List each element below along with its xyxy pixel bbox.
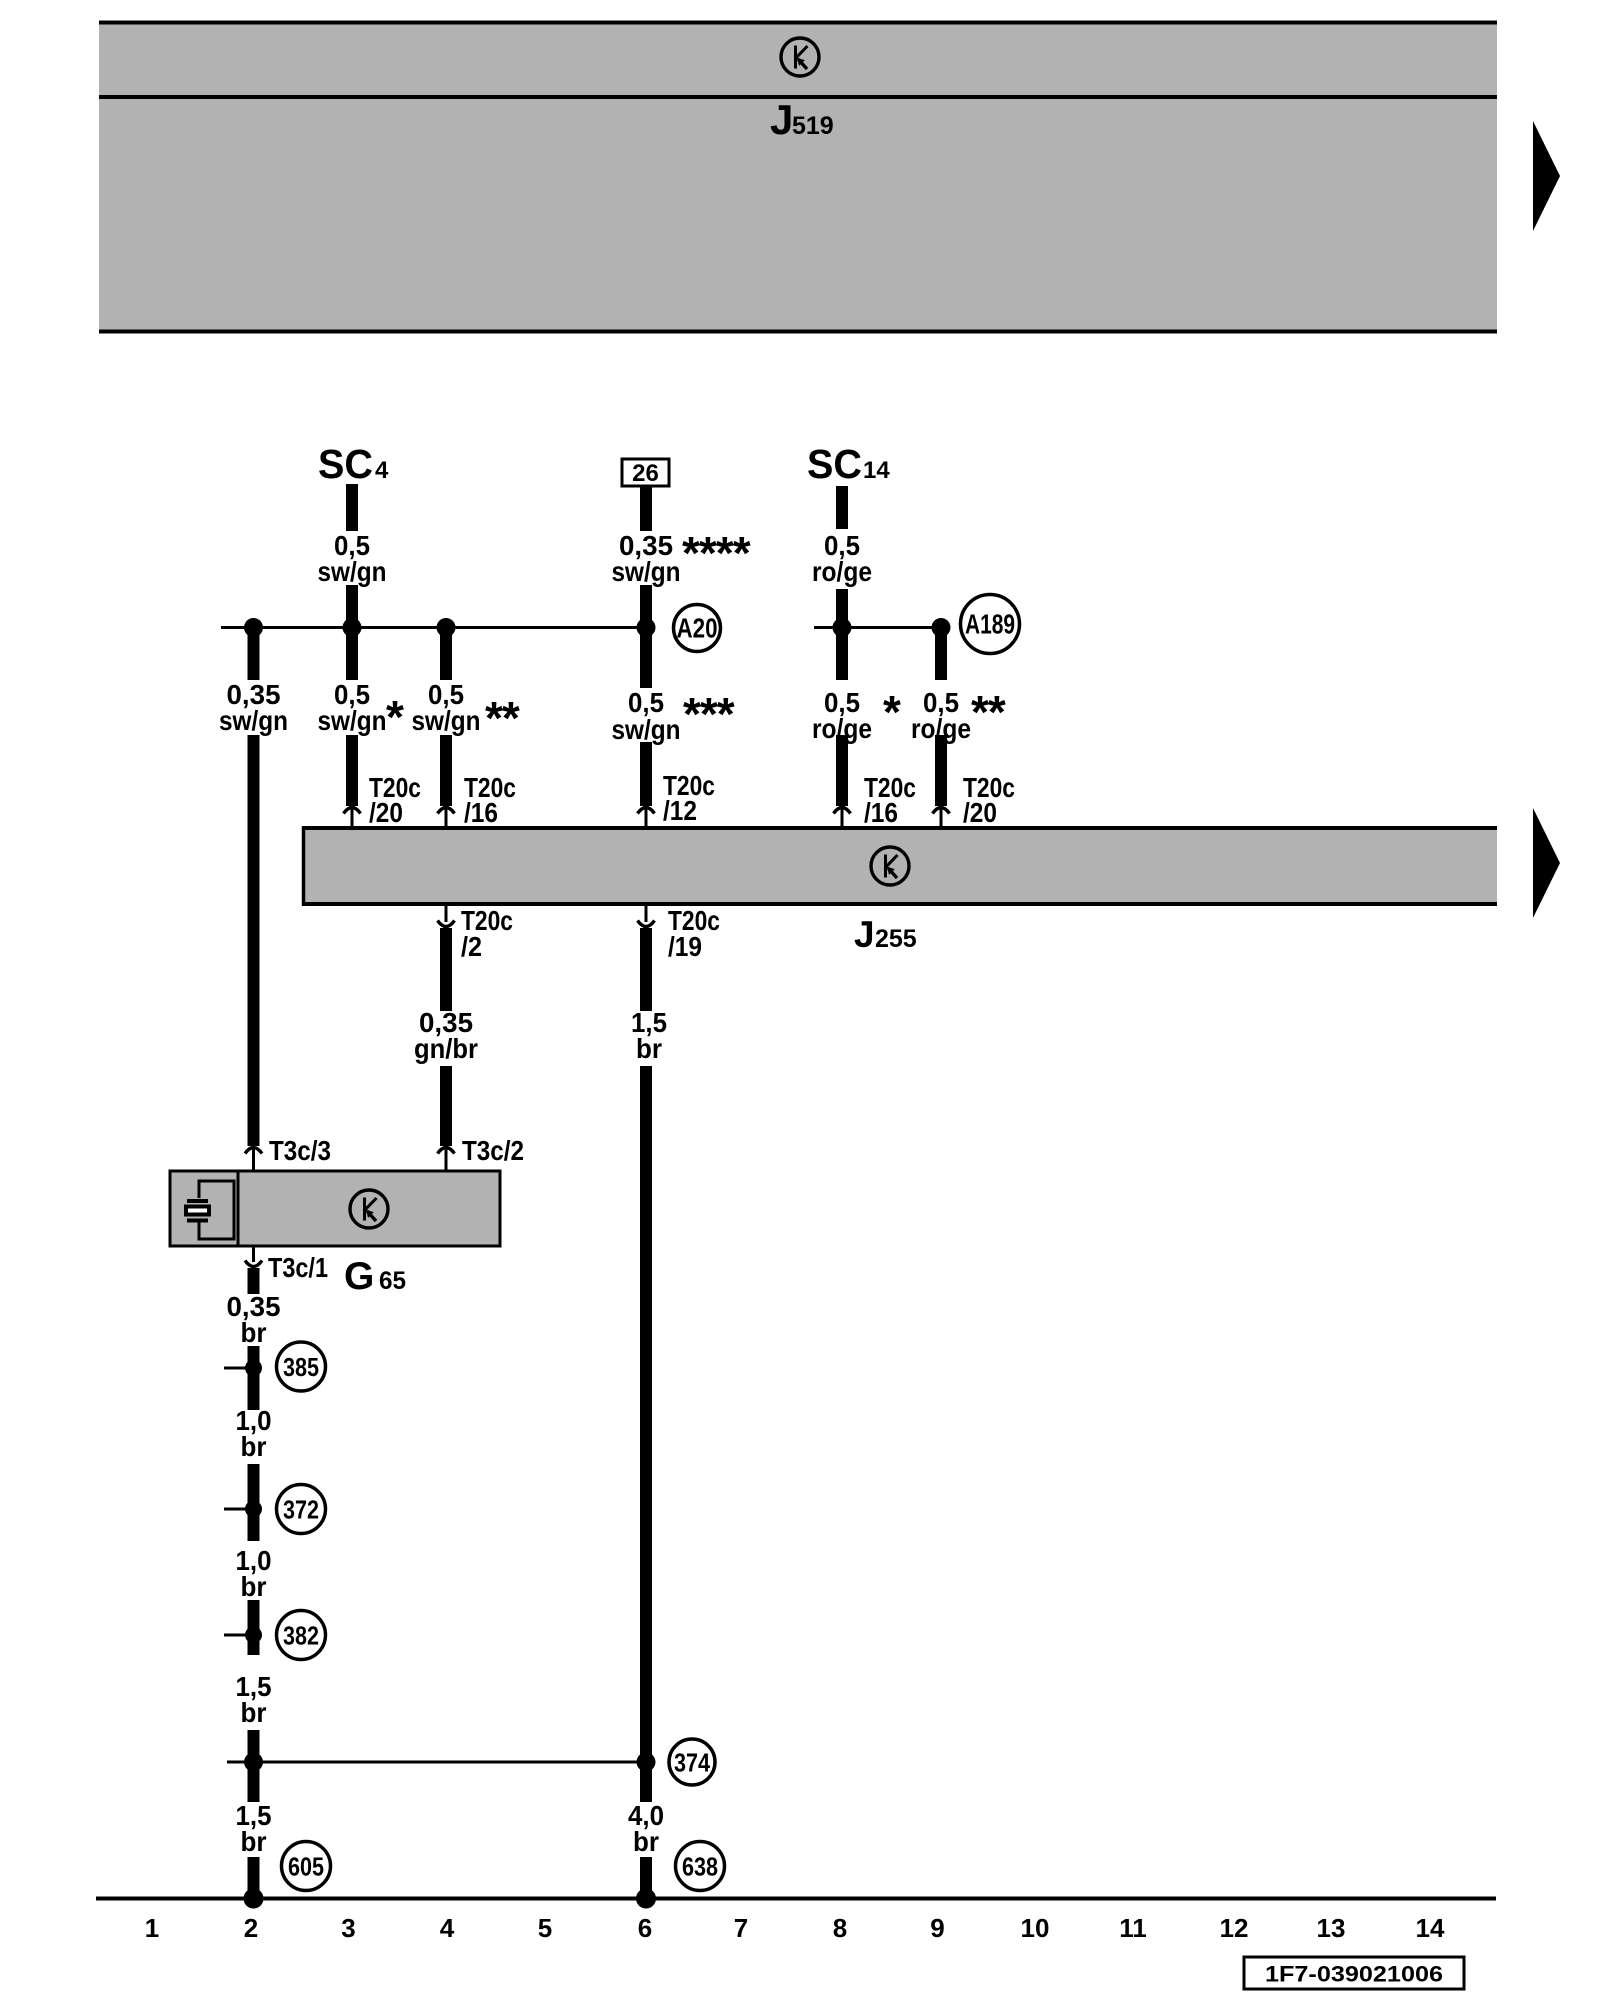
svg-text:11: 11 (1119, 1913, 1147, 1943)
svg-text:SC: SC (807, 441, 862, 487)
pin T20c/12 connector (638, 808, 655, 814)
svg-text:****: **** (682, 527, 751, 579)
wire segment above J255 (346, 735, 358, 806)
tick at node 372 (224, 1508, 252, 1511)
svg-text:br: br (633, 1826, 659, 1857)
pin T20c/19 connector below J255 (645, 906, 648, 922)
junction dot wire2/line374 (244, 1753, 263, 1772)
junction dot wire9/line2 (932, 618, 951, 637)
svg-text:*: * (883, 686, 901, 738)
svg-text:J: J (854, 914, 875, 955)
label J255 (854, 914, 917, 955)
svg-text:12: 12 (1220, 1913, 1249, 1943)
ground rail (96, 1897, 1496, 1901)
pin T3c/3 connector (245, 1148, 262, 1154)
svg-text:sw/gn: sw/gn (219, 705, 288, 736)
diagram id box 1F7-039021006 (1244, 1957, 1464, 1989)
svg-text:T3c/3: T3c/3 (269, 1135, 331, 1166)
wire to node line 374 (248, 1730, 260, 1802)
wire node to J255 pin T20c/20 (346, 628, 358, 680)
pressure sensor symbol in G65 (186, 1181, 234, 1239)
svg-text:4: 4 (375, 457, 389, 484)
svg-text:*: * (386, 691, 404, 743)
svg-text:3: 3 (341, 1913, 355, 1943)
continuation arrow right of J255 (1533, 808, 1560, 918)
svg-text:10: 10 (1021, 1913, 1050, 1943)
wire from terminal 26 (640, 486, 652, 531)
svg-text:7: 7 (734, 1913, 748, 1943)
tick at node 385 (224, 1367, 252, 1370)
control unit J519 box (99, 21, 1497, 333)
svg-text:13: 13 (1317, 1913, 1346, 1943)
node line 1 (221, 626, 651, 629)
svg-text:J: J (770, 96, 793, 143)
wire to G65 pin T3c/2 (440, 1066, 452, 1146)
pin T20c/20 connector (344, 808, 361, 814)
svg-text:9: 9 (930, 1913, 944, 1943)
svg-text:374: 374 (674, 1748, 710, 1778)
wire T20c/2 down (440, 928, 452, 1011)
svg-text:/16: /16 (864, 797, 898, 828)
svg-text:/19: /19 (668, 931, 702, 962)
ground dot track2 (244, 1889, 264, 1909)
wire SC14 to node line2 (836, 589, 848, 680)
svg-text:26: 26 (632, 460, 659, 487)
wire to ground rail right (640, 1857, 652, 1898)
svg-text:5: 5 (538, 1913, 552, 1943)
K symbol in G65 (350, 1190, 388, 1228)
terminal 26 box (622, 459, 669, 487)
pin T3c/1 connector below G65 (252, 1246, 255, 1262)
ground label 605 (282, 1842, 331, 1891)
wire T20c/19 down (640, 928, 652, 1011)
node label A189 (961, 595, 1020, 654)
svg-text:A20: A20 (677, 613, 718, 644)
wire through node 382 (248, 1600, 260, 1655)
svg-text:382: 382 (283, 1621, 319, 1651)
svg-text:sw/gn: sw/gn (612, 556, 681, 587)
svg-text:385: 385 (283, 1352, 319, 1382)
svg-text:sw/gn: sw/gn (318, 705, 387, 736)
wire SC4 to node (346, 585, 358, 628)
svg-text:br: br (241, 1697, 267, 1728)
svg-text:/16: /16 (464, 797, 498, 828)
svg-text:6: 6 (638, 1913, 652, 1943)
junction dot wire2/line1 (244, 618, 263, 637)
wire node line1 down to G65 (248, 628, 260, 680)
junction dot wire8/line2 (833, 618, 852, 637)
wire to J255 pin T20c/12 (640, 742, 652, 806)
pin T20c/20 connector right (933, 808, 950, 814)
junction dot wire3/line1 (343, 618, 362, 637)
svg-text:**: ** (971, 686, 1006, 738)
svg-text:ro/ge: ro/ge (812, 556, 872, 587)
node label 372 (277, 1485, 326, 1534)
svg-text:br: br (241, 1571, 267, 1602)
svg-text:SC: SC (318, 441, 373, 487)
svg-text:638: 638 (682, 1852, 718, 1882)
svg-text:***: *** (683, 688, 735, 740)
label G65 (344, 1255, 406, 1298)
svg-text:**: ** (485, 692, 520, 744)
track numbers 1-14 (145, 1913, 1445, 1943)
node line 374 (227, 1761, 650, 1764)
wire T3c/1 down (248, 1268, 260, 1294)
fuse label SC4 (318, 441, 389, 487)
ground dot track6 (636, 1889, 656, 1909)
svg-text:65: 65 (379, 1267, 406, 1295)
svg-text:14: 14 (863, 457, 890, 484)
svg-text:sw/gn: sw/gn (612, 714, 681, 745)
svg-text:br: br (241, 1826, 267, 1857)
junction dot wire6/line1 (637, 618, 656, 637)
junction dot wire4/line1 (437, 618, 456, 637)
svg-text:1: 1 (145, 1913, 159, 1943)
svg-text:br: br (241, 1431, 267, 1462)
sender G65 box (170, 1171, 500, 1246)
node label A20 (674, 605, 721, 652)
pin T20c/16 connector right (834, 808, 851, 814)
wire to J255 pin T20c/16 right (836, 735, 848, 806)
wire node line2 to J255 pin T20c/20 right (935, 628, 947, 680)
wire 26 to node line1 (640, 585, 652, 688)
pin T20c/16 connector (438, 808, 455, 814)
label J519 (770, 96, 834, 143)
K symbol in J255 (871, 847, 909, 885)
pin T3c/2 connector (438, 1148, 455, 1154)
node label 382 (277, 1611, 326, 1660)
wire through node 385 (248, 1346, 260, 1410)
svg-text:255: 255 (875, 925, 917, 953)
svg-text:/2: /2 (461, 931, 482, 962)
svg-text:sw/gn: sw/gn (318, 556, 387, 587)
control unit J255 box (302, 826, 1497, 906)
svg-text:2: 2 (244, 1913, 258, 1943)
svg-text:8: 8 (833, 1913, 847, 1943)
junction dot wire6/line374 (637, 1753, 656, 1772)
fuse label SC14 (807, 441, 890, 487)
tick at node 382 (224, 1634, 252, 1637)
svg-text:14: 14 (1416, 1913, 1445, 1943)
svg-text:/20: /20 (963, 797, 997, 828)
wire through node 372 (248, 1464, 260, 1541)
svg-text:4: 4 (440, 1913, 455, 1943)
svg-text:sw/gn: sw/gn (412, 705, 481, 736)
svg-text:/20: /20 (369, 797, 403, 828)
continuation arrow right of J519 (1533, 121, 1560, 231)
wire from SC4 (346, 484, 358, 531)
K symbol in J519 (781, 38, 819, 76)
svg-text:br: br (241, 1317, 267, 1348)
svg-text:T3c/2: T3c/2 (462, 1135, 524, 1166)
svg-text:A189: A189 (965, 609, 1015, 640)
node label 385 (277, 1342, 326, 1391)
svg-text:br: br (636, 1033, 662, 1064)
node line 2 (814, 626, 941, 629)
svg-text:1F7-039021006: 1F7-039021006 (1265, 1962, 1443, 1987)
svg-text:372: 372 (283, 1495, 319, 1525)
node label 374 (669, 1739, 715, 1785)
wire node to J255 pin T20c/16 (440, 628, 452, 680)
pin T20c/2 connector below J255 (445, 906, 448, 922)
svg-text:T3c/1: T3c/1 (268, 1252, 328, 1283)
ground label 638 (676, 1842, 725, 1891)
svg-text:gn/br: gn/br (414, 1033, 478, 1064)
svg-text:519: 519 (792, 112, 834, 140)
wire to ground rail left (248, 1857, 260, 1898)
long ground wire track 6 (640, 1066, 652, 1802)
svg-text:G: G (344, 1255, 374, 1298)
svg-text:605: 605 (288, 1852, 324, 1882)
svg-text:/12: /12 (663, 795, 697, 826)
wire from SC14 (836, 486, 848, 529)
